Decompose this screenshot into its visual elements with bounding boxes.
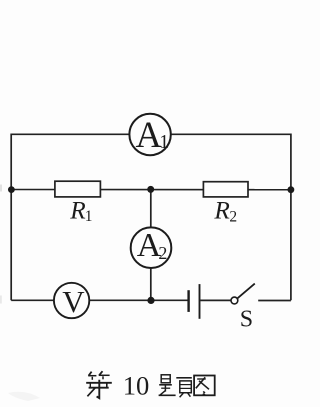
ammeter A1 [129,114,170,155]
wire right rail [290,134,292,301]
battery negative short plate [187,290,189,312]
svg-text:R: R [213,197,230,225]
wire A2 branch vertical [150,189,152,300]
svg-text:10: 10 [123,370,150,400]
switch S lever [237,284,255,299]
junction dot center-middle [147,186,154,193]
wire bottom left segment [11,299,188,301]
resistor R2 [203,182,248,197]
svg-text:2: 2 [229,209,237,226]
wire top horizontal [11,133,291,135]
battery positive long plate [199,284,201,319]
junction dot left-middle [8,186,15,193]
svg-text:V: V [62,284,85,319]
caption char 第 [86,371,112,398]
junction dot right-middle [288,186,295,193]
svg-text:R: R [69,197,86,225]
wire battery to switch segment [200,299,231,301]
svg-text:S: S [240,307,253,333]
caption char 图 [194,376,215,396]
wire switch to right rail segment [258,300,291,302]
svg-text:1: 1 [159,132,169,153]
svg-text:1: 1 [85,208,93,225]
scan smudge left edge lower [0,296,2,304]
scan smudge bottom left [8,392,40,401]
caption char 题 [159,375,192,397]
resistor R2 label [213,197,237,226]
resistor R1 label [69,197,92,225]
switch S pivot circle [231,297,238,304]
junction dot bottom-center [147,297,154,304]
svg-text:2: 2 [158,243,167,263]
scan smudge left edge mid [0,185,2,192]
wire left rail [10,134,12,301]
ammeter A2 [131,227,172,268]
resistor R1 [55,181,101,197]
wire middle horizontal [11,189,291,191]
voltmeter V [54,283,89,319]
